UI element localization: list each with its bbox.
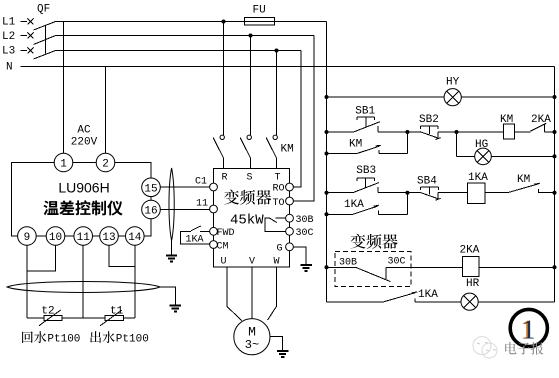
RTD t1 <box>100 310 123 326</box>
svg-text:KM: KM <box>517 174 530 186</box>
pin 30B <box>286 214 314 226</box>
wire L2 to TO <box>294 36 315 202</box>
label KM (coil) <box>500 114 513 126</box>
node L3-drop to KM <box>275 49 279 53</box>
label L1 <box>2 17 16 29</box>
wire KM coil to 2KA <box>514 131 530 133</box>
label V <box>249 257 255 268</box>
svg-text:V: V <box>249 257 255 268</box>
wire N bus <box>21 66 555 68</box>
pushbutton SB2 (NO) <box>420 126 441 140</box>
ground at sensor cable shield <box>160 287 181 311</box>
relay contact 1KA (FWD-CM) <box>181 226 210 244</box>
wire KM holding left <box>327 153 357 155</box>
label AC <box>77 125 91 137</box>
node rail-2KA rung <box>325 265 329 269</box>
page number 1 (circled) <box>510 309 547 346</box>
label 1KA (HR contact) <box>418 289 438 301</box>
label KM (main contacts) <box>281 144 294 156</box>
wire node B to HG <box>457 132 475 156</box>
node rail-KM rung right <box>553 130 557 134</box>
wire 30C to 2KA coil <box>386 266 462 268</box>
svg-text:1KA: 1KA <box>344 199 364 211</box>
relay contact 1KA holding (NO) <box>353 205 379 214</box>
svg-text:SB2: SB2 <box>419 114 439 126</box>
label S <box>246 173 252 184</box>
svg-text:CM: CM <box>217 242 229 253</box>
wire L1 bus <box>56 21 245 23</box>
wire KM holding right <box>379 132 408 154</box>
wire 1KA coil to KM contact <box>485 192 508 194</box>
lamp HG <box>475 148 492 165</box>
shielded cable (vertical) <box>169 168 174 241</box>
breaker QF pole L3 <box>28 48 56 60</box>
wire L1 after FU <box>275 21 327 23</box>
wire 15 to C1 <box>160 186 209 188</box>
label 30C (ladder) <box>388 257 406 268</box>
svg-text:AC: AC <box>77 125 91 137</box>
svg-text:T: T <box>274 173 280 184</box>
svg-text:SB3: SB3 <box>356 165 376 177</box>
svg-text:HR: HR <box>466 278 480 290</box>
svg-text:10: 10 <box>49 232 62 244</box>
svg-text:QF: QF <box>37 4 50 16</box>
terminal 11 <box>74 227 93 246</box>
watermark 电子报 <box>505 342 543 355</box>
label SB1 <box>355 106 375 118</box>
label L3 <box>2 46 15 58</box>
svg-text:FWD: FWD <box>217 228 235 239</box>
label SB4 <box>417 175 437 187</box>
pin 30C <box>286 227 314 239</box>
fuse FU <box>245 18 275 26</box>
motor M 3~ <box>234 319 270 355</box>
inverter U2 box 变频器 45kW <box>214 169 290 268</box>
label R <box>221 173 227 184</box>
svg-text:L1: L1 <box>2 17 16 29</box>
node rail-HY right <box>553 95 557 99</box>
label 变频器 (inside U2) <box>224 190 271 205</box>
relay contact 1KA (NO, HR rung) <box>383 292 417 302</box>
wire 16 to 11 <box>160 208 209 210</box>
svg-text:14: 14 <box>128 232 142 244</box>
RTD t2 <box>39 310 62 326</box>
label QF <box>37 4 50 16</box>
inverter relay contact 30B-30C (ladder) <box>356 267 391 281</box>
contactor KM main contact pole 1 <box>213 135 224 168</box>
node rail-HG <box>553 154 557 158</box>
wire terminal 14 down <box>134 245 136 318</box>
node C <box>405 191 409 195</box>
breaker QF pole L1 <box>28 19 56 31</box>
label 30B (ladder) <box>339 258 357 269</box>
wire SB1 to node A <box>378 131 408 133</box>
wire V to motor <box>251 267 253 319</box>
terminal 9 <box>18 227 37 246</box>
dashed box 变频器 (relay output) <box>335 252 411 287</box>
internal fault contact 30B-30C <box>265 218 286 231</box>
svg-text:2KA: 2KA <box>460 245 480 257</box>
label N <box>6 62 13 74</box>
terminal 10 <box>46 227 65 246</box>
svg-text:15: 15 <box>144 183 157 195</box>
ground at G <box>294 247 312 271</box>
wire L3 to RO <box>294 51 302 188</box>
svg-text:1: 1 <box>522 315 536 345</box>
contactor KM main contact pole 2 <box>240 135 251 168</box>
wire sensor bus <box>27 317 135 319</box>
wire rail bottom to 1KA contact <box>327 301 384 303</box>
node rail-KM rung <box>325 130 329 134</box>
lamp HR <box>461 293 478 310</box>
wire L1 to KM contact <box>223 22 225 136</box>
label KM (aux contact) <box>349 139 362 151</box>
wire node C to SB4 <box>407 192 419 194</box>
wire U to motor <box>227 267 242 321</box>
svg-text:TO: TO <box>273 198 285 209</box>
controller U1 box LU906H <box>12 163 152 237</box>
label FU <box>253 5 266 17</box>
terminal 13 <box>100 227 119 246</box>
label 220V <box>71 137 98 149</box>
pin RO <box>273 183 294 194</box>
label 45kW <box>230 212 264 228</box>
wire HG to rail <box>491 155 554 157</box>
node rail-1KA rung <box>325 191 329 195</box>
lamp HY <box>444 89 461 106</box>
label HR <box>466 278 480 290</box>
node L2-drop to KM <box>249 34 253 38</box>
svg-text:L3: L3 <box>2 46 15 58</box>
label SB2 <box>419 114 439 126</box>
svg-text:N: N <box>6 62 13 74</box>
pushbutton SB3 (NC) <box>353 178 379 193</box>
pin C1 <box>195 177 217 191</box>
node rail-1KA holding <box>325 212 329 216</box>
svg-text:C1: C1 <box>195 177 207 188</box>
svg-text:LU906H: LU906H <box>58 180 109 196</box>
wire L3 stub <box>21 50 28 52</box>
svg-text:KM: KM <box>349 139 362 151</box>
svg-text:Pt100: Pt100 <box>47 334 80 346</box>
label KM (interlock) <box>517 174 530 186</box>
wire HR to rail <box>478 301 554 303</box>
node rail-HY left <box>325 95 329 99</box>
svg-text:RO: RO <box>273 184 285 195</box>
svg-text:9: 9 <box>24 232 31 244</box>
svg-text:220V: 220V <box>71 137 98 149</box>
label t1 <box>110 305 124 317</box>
svg-text:13: 13 <box>102 232 115 244</box>
wire drop to terminal 1 <box>63 22 65 154</box>
svg-text:KM: KM <box>500 114 513 126</box>
svg-text:HY: HY <box>446 77 460 89</box>
wire terminal 13 down <box>109 245 135 266</box>
pushbutton SB1 (NC) <box>354 117 380 132</box>
svg-text:30C: 30C <box>388 257 406 268</box>
cable shield (sensor lines) <box>7 282 160 293</box>
terminal 15 <box>142 178 161 197</box>
label L2 <box>2 31 15 43</box>
wire W to motor <box>268 267 277 320</box>
wire terminal 10 down <box>27 245 56 271</box>
label HG <box>475 139 488 151</box>
wire terminal 9 down <box>26 245 28 318</box>
terminal 1 <box>54 153 73 172</box>
breaker QF linkage <box>45 26 47 54</box>
svg-text:1KA: 1KA <box>418 289 438 301</box>
pin G <box>277 243 294 255</box>
contactor KM main contact pole 3 <box>266 135 277 168</box>
wire 1KA contact to HR <box>415 301 461 303</box>
wire node B to KM coil <box>457 131 504 133</box>
terminal 14 <box>126 227 145 246</box>
wire L2 to KM contact <box>250 36 252 136</box>
svg-text:S: S <box>246 173 252 184</box>
coil KM <box>503 124 514 139</box>
svg-text:11: 11 <box>196 199 208 210</box>
label t2 <box>41 305 54 317</box>
label 1KA (coil) <box>468 172 488 184</box>
ground at motor <box>270 336 288 357</box>
wire node A to SB2 <box>407 131 419 133</box>
wire rail to SB3 <box>327 192 353 194</box>
svg-text:1: 1 <box>60 159 67 171</box>
svg-text:W: W <box>273 257 279 268</box>
svg-text:2KA: 2KA <box>531 114 551 126</box>
wire SB2 to node B <box>438 131 456 133</box>
label 温差控制仪 <box>43 200 122 215</box>
pin CM <box>210 241 229 253</box>
svg-text:SB1: SB1 <box>355 106 375 118</box>
node rail-1KA rung right <box>553 191 557 195</box>
terminal 2 <box>96 153 115 172</box>
wire L2 stub <box>21 35 28 37</box>
svg-text:30B: 30B <box>296 215 314 226</box>
wire L1 stub <box>21 21 28 23</box>
svg-text:FU: FU <box>253 5 266 17</box>
label 回水Pt100 <box>22 331 80 345</box>
node B <box>455 130 459 134</box>
ground at signal cable shield <box>166 241 177 262</box>
label 1KA (holding contact) <box>344 199 364 211</box>
relay contact 2KA (NC) <box>530 123 554 132</box>
watermark logo <box>473 337 497 358</box>
svg-text:1KA: 1KA <box>186 235 204 246</box>
wire L2 bus <box>56 35 315 37</box>
svg-text:t1: t1 <box>110 305 124 317</box>
label 2KA (coil) <box>460 245 480 257</box>
pin TO <box>273 197 294 209</box>
label LU906H <box>58 180 109 196</box>
contactor KM auxiliary contact (NO) <box>357 145 381 153</box>
wire L3 to KM contact <box>276 51 278 136</box>
pin 11 <box>196 199 217 213</box>
label U <box>220 257 226 268</box>
svg-text:11: 11 <box>77 232 91 244</box>
svg-text:1KA: 1KA <box>468 172 488 184</box>
pushbutton SB4 (NO) <box>420 187 441 200</box>
wire HY rung <box>327 96 555 98</box>
right rail (from N) <box>554 67 556 303</box>
wire rail to SB1 <box>327 131 354 133</box>
wire terminal 11 down <box>82 245 84 318</box>
svg-text:16: 16 <box>144 206 157 218</box>
svg-text:R: R <box>221 173 227 184</box>
svg-text:45kW: 45kW <box>230 212 264 228</box>
contactor KM interlock contact (NO) <box>508 183 555 193</box>
wire drop N to terminal 2 <box>105 67 107 154</box>
wire L3 bus <box>56 50 302 52</box>
svg-text:3~: 3~ <box>245 338 259 352</box>
label SB3 <box>356 165 376 177</box>
wire 1KA holding right <box>378 193 407 215</box>
svg-text:KM: KM <box>281 144 294 156</box>
svg-text:U: U <box>220 257 226 268</box>
wire SB3 to node C <box>378 192 408 194</box>
coil 1KA <box>468 183 485 203</box>
wire SB4 to 1KA coil <box>438 192 467 194</box>
svg-text:HG: HG <box>475 139 488 151</box>
terminal 16 <box>142 200 161 219</box>
label 出水Pt100 <box>90 331 149 345</box>
svg-text:L2: L2 <box>2 31 15 43</box>
label 2KA (contact) <box>531 114 551 126</box>
pin FWD <box>210 227 235 239</box>
svg-text:t2: t2 <box>41 305 54 317</box>
coil 2KA <box>463 256 479 276</box>
label T <box>274 173 280 184</box>
node L1-drop to KM <box>222 20 226 24</box>
label 1KA (FWD contact) <box>186 235 204 246</box>
wire rail to 30B <box>327 266 356 268</box>
node rail-2KA rung right <box>553 265 557 269</box>
left rail (from FU) <box>326 22 328 303</box>
svg-text:30B: 30B <box>339 258 357 269</box>
wire 2KA coil to rail <box>479 266 555 268</box>
node A <box>405 130 409 134</box>
svg-text:G: G <box>277 244 283 255</box>
svg-text:SB4: SB4 <box>417 175 437 187</box>
label 变频器 (dashed box) <box>351 234 398 249</box>
label HY <box>446 77 460 89</box>
breaker QF pole L2 <box>28 33 56 45</box>
svg-text:Pt100: Pt100 <box>116 334 149 346</box>
svg-text:2: 2 <box>102 159 109 171</box>
wire 1KA holding left <box>327 213 353 215</box>
node rail-KM holding <box>325 152 329 156</box>
svg-text:30C: 30C <box>296 228 314 239</box>
label W <box>273 257 279 268</box>
